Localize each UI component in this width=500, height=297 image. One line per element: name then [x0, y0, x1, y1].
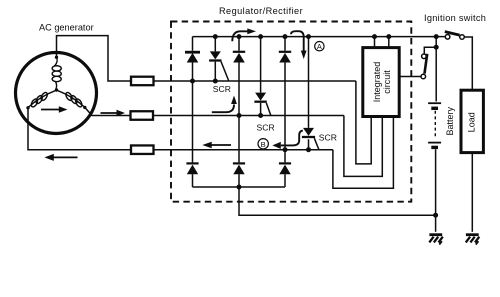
battery BT1 cell1 negative plate	[431, 107, 438, 110]
junction dot battery negative	[433, 213, 438, 218]
node A circled label	[315, 42, 324, 52]
wire: IC right pin to ignition switch pole 2	[399, 76, 421, 78]
svg-text:Integrated: Integrated	[372, 62, 382, 103]
diode D1 (phase1 positive)	[185, 52, 200, 62]
thyristor SCR3	[302, 128, 319, 150]
SCR3 column wire	[308, 37, 310, 150]
wire phase1: generator top to corner	[57, 36, 132, 81]
G1 stator coil left (phase 3 winding)	[28, 90, 56, 108]
diode D3 (phase3 positive)	[279, 52, 291, 63]
wire: battery negative down to ground	[435, 149, 437, 232]
svg-text:A: A	[317, 42, 322, 51]
arrow: curved current leaving top bus down (right)	[291, 31, 307, 59]
wire: bus node to battery top	[435, 37, 437, 102]
resistor R1	[131, 77, 154, 86]
svg-text:Regulator/Rectifier: Regulator/Rectifier	[219, 6, 303, 16]
svg-text:SCR: SCR	[319, 133, 337, 143]
resistor R3	[131, 145, 154, 154]
G1 stator coil top (phase 1 winding)	[52, 57, 61, 89]
svg-text:B: B	[261, 140, 266, 149]
regulator/rectifier dashed box	[171, 22, 411, 202]
node: left winding terminal	[26, 106, 29, 109]
ground symbol 2 (load)	[466, 235, 480, 245]
wire: bottom bus to battery negative	[239, 187, 436, 215]
ignition switch S1 pole2 blade	[425, 54, 428, 74]
wire: negative bottom bus	[193, 186, 286, 188]
ground symbol 1 (battery)	[429, 235, 443, 245]
svg-text:AC generator: AC generator	[39, 23, 94, 33]
node: top winding terminal	[55, 56, 58, 59]
junction dot bottom bus	[237, 185, 242, 190]
svg-text:circuit: circuit	[382, 70, 392, 94]
wire: positive top bus	[193, 36, 446, 38]
battery BT1 cell1 positive plate	[428, 102, 441, 104]
arrow: phase3 return current	[44, 154, 77, 161]
diode D2 column wire	[238, 37, 240, 163]
diode D2 (phase2 positive)	[233, 52, 245, 63]
load LD1 box	[461, 90, 483, 152]
ignition switch S1 pole2 contact bottom	[421, 74, 426, 79]
ignition switch S1 pole1 contact right	[460, 35, 465, 40]
node B circled label	[258, 139, 268, 149]
wire phase3: generator left terminal down and right	[28, 108, 131, 150]
SCR1 column wire	[214, 37, 216, 81]
svg-text:Load: Load	[467, 112, 477, 132]
ignition switch S1 pole1 contact left	[445, 35, 450, 40]
integrated circuit U1 box	[363, 48, 399, 117]
arrow: current on phase3 inside box	[202, 142, 231, 149]
wire: IC top pin 1	[374, 37, 376, 48]
SCR2 column wire	[260, 37, 262, 116]
wire: pole2 branch	[424, 47, 436, 54]
svg-text:SCR: SCR	[213, 84, 231, 94]
resistor R2	[131, 111, 154, 120]
wire: IC bottom pin 2 loop to phase2 sense	[344, 116, 382, 177]
battery BT1 middle cells dashed	[434, 111, 436, 139]
wire phase2: generator right terminal out	[85, 107, 131, 115]
svg-text:Battery: Battery	[445, 107, 455, 136]
G1 stator coil right (phase 2 winding)	[57, 90, 85, 108]
wire: load bottom to ground	[471, 153, 473, 232]
diode D3 column wire	[284, 37, 286, 163]
arrow: current in generator	[41, 106, 68, 112]
wire: switch to load corner	[464, 37, 472, 91]
wire: IC bottom pin 1 loop to phase1 sense	[356, 81, 371, 164]
arrow: curved current into node B	[272, 131, 303, 149]
wire: IC top pin 2	[388, 37, 390, 48]
wire phase3: R3 into bridge	[154, 149, 333, 151]
battery BT1 cell2 negative plate	[431, 146, 438, 149]
ignition switch S1 pole1 blade	[445, 32, 460, 35]
junction dots phase lines	[190, 79, 311, 153]
arrow: curved current on top bus (left)	[232, 28, 256, 41]
node: winding star point	[55, 88, 58, 91]
thyristor SCR2	[254, 93, 270, 116]
ignition switch S1 pole2 contact top	[422, 54, 427, 59]
diode D4 (phase1 negative)	[186, 81, 198, 187]
svg-text:Ignition switch: Ignition switch	[424, 13, 486, 23]
diode D6 (phase3 negative)	[279, 163, 291, 187]
arrow: curved gate current near SCR1	[212, 96, 237, 113]
svg-text:SCR: SCR	[257, 122, 275, 132]
diode D1 column wire	[192, 37, 194, 81]
diode D5 (phase2 negative)	[233, 163, 245, 187]
battery BT1 cell2 positive plate	[428, 142, 441, 144]
wire phase2: R2 into bridge	[153, 115, 344, 117]
AC generator G1 circle	[16, 53, 97, 134]
node: right winding terminal	[83, 106, 86, 109]
arrow: phase2 current	[101, 110, 126, 116]
junction dot switch branch	[434, 45, 439, 50]
wire phase1: R1 to bridge node A1	[154, 80, 356, 82]
junction dots top bus	[213, 34, 439, 39]
thyristor SCR1	[209, 51, 229, 80]
wire: IC bottom pin 3 loop to phase3 sense	[333, 117, 394, 189]
